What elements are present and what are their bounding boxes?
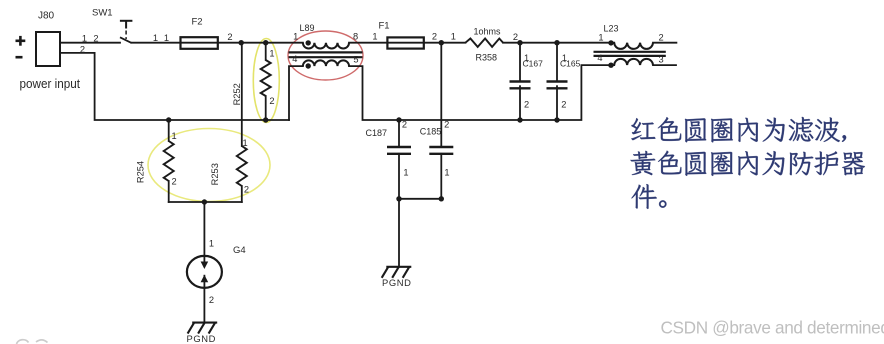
wire R254 top stub xyxy=(168,120,170,141)
wire SW1 to F2 through F1 rail segment xyxy=(131,42,303,44)
resistor R253 xyxy=(237,146,247,186)
inductor L89 common-mode choke xyxy=(303,43,349,49)
fuse F2 xyxy=(181,37,218,49)
svg-text:PGND: PGND xyxy=(187,333,217,344)
ground PGND (middle, under C187/C185) xyxy=(382,267,412,278)
svg-text:C165: C165 xyxy=(560,58,581,68)
svg-text:PGND: PGND xyxy=(382,277,412,288)
svg-text:2: 2 xyxy=(513,32,518,42)
svg-text:2: 2 xyxy=(659,33,664,43)
svg-text:R252: R252 xyxy=(232,83,242,105)
fuse F1 xyxy=(387,37,423,48)
svg-text:2: 2 xyxy=(209,295,214,305)
svg-text:J80: J80 xyxy=(38,11,55,22)
svg-text:R254: R254 xyxy=(135,161,145,183)
L23 polarity dot pin1 xyxy=(608,40,613,45)
wire node to G4 pin1 xyxy=(203,202,205,266)
note: Chinese annotation text xyxy=(631,117,865,209)
svg-text:2: 2 xyxy=(444,120,449,130)
junction R252 top xyxy=(263,40,268,45)
svg-text:power input: power input xyxy=(20,77,81,91)
wire L23 pin3 out xyxy=(653,64,676,66)
connector J80 xyxy=(36,32,60,66)
wire L23 pin2 out xyxy=(653,42,676,44)
svg-text:4: 4 xyxy=(292,54,297,64)
resistor R254 xyxy=(164,141,174,181)
svg-text:C167: C167 xyxy=(523,58,544,68)
capacitor C165 xyxy=(547,82,568,89)
minus symbol xyxy=(16,56,23,59)
svg-text:1: 1 xyxy=(293,32,298,42)
switch SW1 xyxy=(120,21,132,43)
junction R252 bottom xyxy=(263,117,268,122)
svg-text:4: 4 xyxy=(597,53,602,63)
svg-text:2: 2 xyxy=(227,32,232,42)
wire C185 bottom stub xyxy=(440,154,442,199)
L23 polarity dot pin4 xyxy=(608,62,613,67)
wire down to middle PGND xyxy=(398,199,400,267)
svg-text:F2: F2 xyxy=(192,17,203,28)
svg-text:1: 1 xyxy=(451,32,456,42)
svg-text:2: 2 xyxy=(244,184,249,194)
wire C185 branch from F1 junction down xyxy=(440,43,442,147)
wire C187 bottom stub xyxy=(398,154,400,199)
resistor R358 xyxy=(465,39,503,47)
junction C185 bottom xyxy=(439,196,444,201)
wire C167 bottom stub xyxy=(519,86,521,120)
junction R358 output / C167 top xyxy=(517,40,522,45)
wire R253 vertical feed from top rail xyxy=(241,43,243,146)
svg-text:2: 2 xyxy=(269,96,274,106)
faint corner watermark fragment xyxy=(17,340,29,344)
svg-text:1: 1 xyxy=(153,33,158,43)
junction C167 bottom xyxy=(517,117,522,122)
junction C187 bottom xyxy=(396,196,401,201)
wire J80 pin1 to SW1 xyxy=(60,42,120,44)
capacitor C167 xyxy=(510,82,531,89)
resistor R252 xyxy=(261,60,271,96)
plus symbol xyxy=(16,36,26,46)
wire C187 to C185 bottom link xyxy=(399,198,441,200)
svg-text:1: 1 xyxy=(372,32,377,42)
svg-text:2: 2 xyxy=(172,176,177,186)
svg-text:5: 5 xyxy=(353,54,358,64)
L89 polarity dot pin1 xyxy=(306,40,311,45)
svg-text:F1: F1 xyxy=(379,21,390,32)
svg-text:1: 1 xyxy=(172,131,177,141)
wire L89 pin4 left leg xyxy=(289,66,303,120)
svg-text:L23: L23 xyxy=(604,23,619,33)
wire C165 bottom stub xyxy=(556,86,558,120)
svg-text:2: 2 xyxy=(93,33,98,43)
wire R252 bottom stub xyxy=(265,96,267,120)
svg-text:G4: G4 xyxy=(233,245,246,256)
wire C167 top stub xyxy=(519,43,521,82)
yellow highlight ellipse around R252 xyxy=(253,39,279,123)
svg-text:R253: R253 xyxy=(210,163,220,185)
junction C165 top xyxy=(554,40,559,45)
wire R254 bottom stub xyxy=(168,181,170,202)
svg-text:1: 1 xyxy=(598,33,603,43)
svg-text:C187: C187 xyxy=(366,128,388,138)
svg-text:1: 1 xyxy=(403,167,408,177)
svg-text:1: 1 xyxy=(82,33,87,43)
yellow highlight ellipse around R254 R253 xyxy=(148,129,270,202)
svg-text:2: 2 xyxy=(524,99,529,109)
svg-text:1: 1 xyxy=(164,33,169,43)
junction F1 output / C185 branch xyxy=(439,40,444,45)
wire L89 pin5 down to bottom rail right xyxy=(349,65,614,120)
red highlight ellipse around L89 filter xyxy=(288,31,363,80)
svg-text:1: 1 xyxy=(269,48,274,58)
wire C187 top stub xyxy=(398,120,400,147)
junction C187 top xyxy=(396,117,401,122)
L89 polarity dot pin4 xyxy=(306,63,311,68)
inductor L23 common-mode choke xyxy=(614,43,653,49)
wire R254 to R253 bottom link xyxy=(169,201,242,203)
svg-text:R358: R358 xyxy=(476,53,498,63)
svg-text:3: 3 xyxy=(659,55,664,65)
svg-text:CSDN @brave and determined: CSDN @brave and determined xyxy=(661,318,884,338)
wire R252 top stub xyxy=(265,43,267,60)
svg-text:1ohms: 1ohms xyxy=(474,26,502,36)
junction F2 output / R253 branch xyxy=(239,40,244,45)
svg-text:8: 8 xyxy=(353,32,358,42)
junction R254/R253 node to G4 xyxy=(202,199,207,204)
wire L89 pin8 to F1 to R358 xyxy=(349,42,465,44)
junction R254 top xyxy=(166,117,171,122)
wire C165 top stub xyxy=(556,43,558,82)
svg-text:L89: L89 xyxy=(300,23,315,33)
wire R253 bottom stub xyxy=(241,186,243,202)
wire R358 to L23 pin1 xyxy=(503,42,614,44)
ground PGND (left, under G4) xyxy=(188,323,218,334)
wire G4 pin2 to PGND xyxy=(203,278,205,323)
svg-text:1: 1 xyxy=(444,168,449,178)
svg-text:SW1: SW1 xyxy=(92,8,113,19)
surge arrester G4 xyxy=(187,256,222,288)
capacitor C187 xyxy=(387,147,411,154)
svg-text:C185: C185 xyxy=(420,126,442,136)
capacitor C185 xyxy=(429,147,453,154)
junction C165 bottom xyxy=(554,117,559,122)
wire J80 pin2 down and right (bottom rail left) xyxy=(60,53,289,120)
svg-text:1: 1 xyxy=(243,138,248,148)
svg-text:2: 2 xyxy=(561,99,566,109)
svg-text:2: 2 xyxy=(402,120,407,130)
svg-text:1: 1 xyxy=(209,239,214,249)
svg-text:2: 2 xyxy=(432,32,437,42)
svg-text:2: 2 xyxy=(80,44,85,54)
